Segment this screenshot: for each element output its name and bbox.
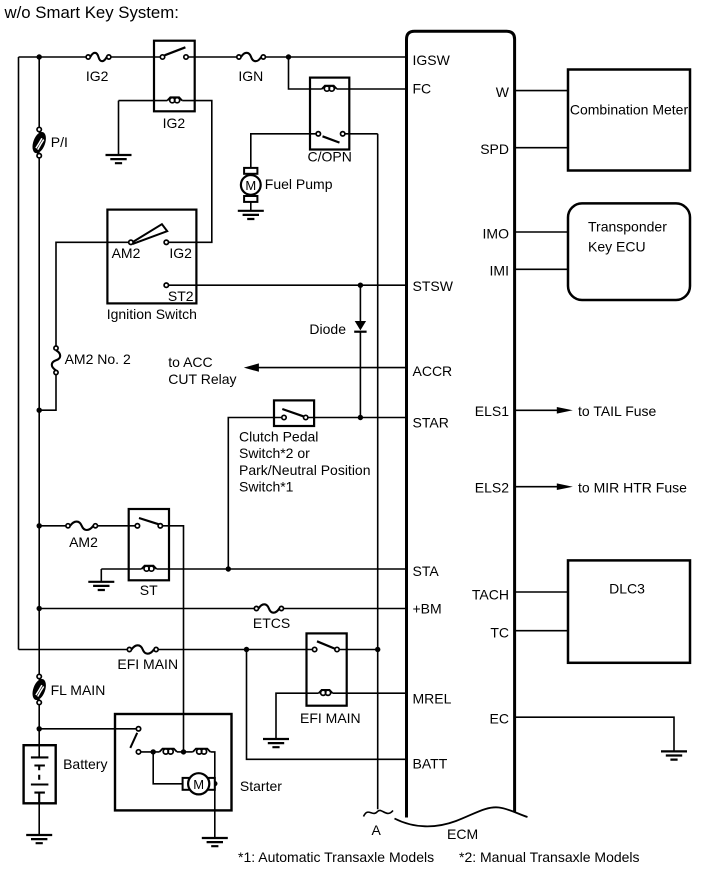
svg-text:Park/Neutral Position: Park/Neutral Position	[239, 462, 371, 478]
wire: EFI MAIN relay coil ground stem	[276, 693, 307, 739]
wire: IMI to transponder key ECU	[515, 268, 568, 270]
wire: TC to DLC3	[515, 630, 568, 632]
motor: starter	[183, 773, 215, 794]
svg-text:FC: FC	[413, 81, 432, 97]
wire: IG2 relay coil ground stem	[118, 101, 120, 155]
wire: fuel pump ground stem	[250, 202, 252, 211]
svg-text:W: W	[496, 84, 510, 100]
EFI MAIN relay switch lever	[317, 641, 335, 648]
junction: starter motor brush / ground line	[212, 781, 217, 786]
svg-text:+BM: +BM	[413, 601, 442, 617]
starter magnetic switch lever	[130, 733, 137, 748]
wire: ECM ACCR to ACC cut relay	[258, 367, 407, 369]
wire: battery feed to IG2 fuse	[19, 56, 87, 58]
svg-text:ECM: ECM	[447, 826, 478, 842]
wire: EFI MAIN relay coil left	[307, 692, 319, 694]
junction: main vertical / ETCS wire	[37, 606, 42, 611]
wire: between starter windings	[177, 751, 193, 753]
junction: battery positive tap	[37, 726, 42, 731]
junction: top wire / P-I branch	[37, 54, 42, 59]
svg-text:*1: Automatic Transaxle Models: *1: Automatic Transaxle Models	[238, 849, 434, 865]
svg-text:Ignition Switch: Ignition Switch	[107, 306, 197, 322]
ECM torn-edge wave	[395, 807, 528, 826]
wire: starter switch to pull-in coil	[141, 751, 160, 753]
combination meter box	[568, 70, 690, 171]
wire: W to combination meter	[515, 90, 568, 92]
svg-text:M: M	[193, 777, 204, 792]
ignition key lever	[133, 224, 167, 243]
svg-text:IGN: IGN	[238, 68, 263, 84]
wire: node A vertical (fuel pump feed)	[377, 134, 379, 810]
wire: ETCS fuse to ECM +BM	[284, 608, 407, 610]
svg-text:AM2 No. 2: AM2 No. 2	[65, 351, 131, 367]
wire: C/OPN switch to node A line	[345, 133, 378, 135]
starter box	[115, 714, 232, 810]
ground: starter motor	[202, 838, 228, 846]
ground: fuel pump	[238, 211, 264, 219]
svg-text:Fuel Pump: Fuel Pump	[265, 176, 333, 192]
junction: STSW / diode branch	[358, 283, 363, 288]
wire: ST2 to ECM STSW	[169, 284, 407, 286]
coil of ST relay	[142, 566, 157, 572]
motor: fuel pump	[241, 168, 261, 202]
svg-text:*2: Manual Transaxle Models: *2: Manual Transaxle Models	[459, 849, 640, 865]
node A break squiggle	[364, 810, 394, 816]
ground: ST relay coil	[88, 582, 114, 590]
wire: starter motor left brush feed	[153, 752, 182, 784]
svg-text:EC: EC	[490, 711, 509, 727]
svg-text:IG2: IG2	[169, 245, 192, 261]
wire: P/I feed vertical upper	[38, 57, 40, 127]
wire: SPD to combination meter	[515, 147, 568, 149]
junction: starter coil / motor brush	[151, 749, 156, 754]
svg-text:EFI MAIN: EFI MAIN	[117, 656, 178, 672]
wire: clutch switch to ST relay coil	[228, 418, 281, 567]
svg-text:to MIR HTR Fuse: to MIR HTR Fuse	[578, 480, 687, 496]
svg-text:Battery: Battery	[63, 756, 107, 772]
arrow to ACC CUT Relay	[244, 363, 259, 371]
svg-text:ST: ST	[140, 582, 158, 598]
junction: STA / clutch switch branch	[226, 566, 231, 571]
wire: ST relay coil ground stem	[100, 569, 102, 582]
wire: P/I to FL MAIN vertical	[38, 158, 40, 674]
wire: STSW junction to diode	[359, 285, 361, 321]
ground: battery	[26, 835, 52, 843]
wire: IG2 fuse to IG2 relay switch	[111, 56, 160, 58]
svg-text:IG2: IG2	[86, 68, 109, 84]
wire: C/OPN coil to ECM FC	[337, 88, 407, 90]
svg-text:IMO: IMO	[483, 226, 510, 242]
wire: IG2 relay coil left	[119, 100, 168, 102]
fuse IG2	[86, 53, 111, 61]
wire: IG2 relay switch to IGN fuse	[188, 56, 237, 58]
svg-text:STA: STA	[413, 563, 440, 579]
wire: ST relay coil to ECM STA	[157, 568, 407, 570]
wire: TACH to DLC3	[515, 591, 568, 593]
fuse EFI MAIN	[127, 645, 158, 653]
fusible link FL MAIN	[30, 674, 49, 704]
svg-text:Switch*1: Switch*1	[239, 479, 294, 495]
relay EFI MAIN box	[307, 633, 347, 705]
svg-text:Key ECU: Key ECU	[588, 239, 646, 255]
DLC3 box	[568, 560, 690, 662]
ST relay switch lever	[139, 518, 158, 524]
wire: ground to ST relay coil	[101, 568, 141, 570]
wire: ELS2 output	[515, 486, 558, 488]
svg-text:w/o Smart Key System:: w/o Smart Key System:	[4, 3, 179, 22]
fuse IGN	[237, 53, 266, 61]
junction: node A line / EFI MAIN relay	[375, 647, 380, 652]
ground: EFI MAIN relay coil	[263, 739, 289, 747]
C/OPN relay switch lever	[323, 136, 340, 142]
coil: starter pull-in winding	[159, 749, 177, 755]
svg-text:EFI MAIN: EFI MAIN	[300, 710, 361, 726]
wire: EFI MAIN relay coil to ECM MREL	[333, 692, 407, 694]
wire: diode to STAR wire	[359, 332, 361, 418]
svg-text:Transponder: Transponder	[588, 219, 667, 235]
wire: left vertical to EFI MAIN fuse	[19, 649, 128, 651]
svg-text:ELS1: ELS1	[475, 403, 509, 419]
wire: left outer vertical (battery to EFI MAIN fuse)	[18, 57, 20, 650]
svg-text:Starter: Starter	[240, 778, 282, 794]
wire: EFI MAIN fuse to EFI MAIN relay switch	[158, 649, 312, 651]
svg-text:Diode: Diode	[309, 321, 346, 337]
wire: AM2 fuse to ST relay switch	[98, 525, 136, 527]
IG2 relay switch lever	[165, 47, 186, 55]
wire: clutch switch to ECM STAR	[308, 417, 407, 419]
relay C/OPN box	[310, 78, 349, 150]
svg-text:TC: TC	[490, 625, 509, 641]
wire: main vertical to ETCS fuse	[39, 608, 254, 610]
svg-text:Clutch Pedal: Clutch Pedal	[239, 429, 318, 445]
svg-text:P/I: P/I	[51, 134, 68, 150]
svg-text:Switch*2 or: Switch*2 or	[239, 445, 310, 461]
junction: EFI MAIN wire / BATT branch	[244, 647, 249, 652]
svg-text:ELS2: ELS2	[475, 480, 509, 496]
wire: AM2 terminal to AM2 No.2 fuse	[56, 242, 129, 346]
svg-text:TACH: TACH	[472, 587, 509, 603]
wire: EFI MAIN relay switch to node A line	[339, 649, 378, 651]
clutch pedal / park-neutral switch box	[274, 400, 314, 426]
transponder key ECU box	[568, 203, 690, 300]
svg-text:STAR: STAR	[413, 415, 449, 431]
wire: battery negative to ground	[38, 803, 40, 835]
arrow to MIR HTR fuse	[557, 483, 573, 490]
arrow to TAIL fuse	[557, 407, 573, 414]
coil of IG2 relay	[167, 97, 182, 103]
svg-text:IGSW: IGSW	[413, 52, 451, 68]
diode D1	[354, 321, 366, 332]
fuse AM2 No. 2	[52, 346, 60, 375]
coil: starter hold-in winding	[193, 749, 211, 755]
fuse AM2	[66, 522, 98, 530]
ground: ECM EC	[661, 751, 687, 759]
svg-text:to TAIL Fuse: to TAIL Fuse	[578, 403, 657, 419]
fuse ETCS	[254, 604, 283, 612]
junction: ST relay feed / starter windings	[181, 749, 186, 754]
ECM connector box U1	[407, 31, 515, 817]
coil of C/OPN relay	[322, 86, 337, 92]
svg-text:Combination Meter: Combination Meter	[570, 102, 689, 118]
svg-text:FL MAIN: FL MAIN	[51, 682, 106, 698]
junction: STAR / diode branch	[358, 415, 363, 420]
wire: IGN fuse to ECM IGSW	[265, 56, 406, 58]
wire: IGSW junction to C/OPN coil	[289, 57, 322, 89]
svg-text:STSW: STSW	[413, 278, 454, 294]
junction: IGSW wire / FC branch	[286, 54, 291, 59]
ground: IG2 relay coil	[106, 155, 132, 163]
coil of EFI MAIN relay	[319, 690, 333, 696]
wire: battery positive to starter switch	[39, 728, 136, 730]
svg-text:AM2: AM2	[69, 534, 98, 550]
svg-text:MREL: MREL	[413, 691, 452, 707]
svg-text:AM2: AM2	[112, 245, 141, 261]
svg-text:ACCR: ACCR	[413, 363, 453, 379]
wire: starter winding to motor and ground	[210, 752, 214, 838]
svg-text:IMI: IMI	[490, 263, 509, 279]
svg-text:C/OPN: C/OPN	[308, 149, 352, 165]
svg-text:ETCS: ETCS	[253, 615, 290, 631]
wire: FL MAIN to battery	[38, 705, 40, 746]
svg-text:to ACC: to ACC	[168, 354, 212, 370]
svg-text:DLC3: DLC3	[609, 581, 645, 597]
svg-text:CUT Relay: CUT Relay	[168, 371, 236, 387]
wire: IMO to transponder key ECU	[515, 231, 568, 233]
wire: IG2 relay coil to ignition switch IG2	[169, 101, 212, 243]
wire: ST relay switch to starter coil node	[163, 526, 184, 752]
wire: main vertical to AM2 fuse	[39, 525, 66, 527]
fusible link P/I	[30, 127, 49, 158]
wire: C/OPN switch to fuel pump	[251, 134, 316, 168]
svg-text:BATT: BATT	[413, 756, 448, 772]
wire: AM2 No.2 fuse to main vertical	[39, 375, 56, 411]
wire: ELS1 output	[515, 409, 558, 411]
relay IG2 box	[154, 41, 195, 112]
svg-text:A: A	[372, 822, 382, 838]
junction: AM2 No.2 / main vertical	[37, 408, 42, 413]
svg-text:IG2: IG2	[163, 115, 186, 131]
wire: EC to ground	[515, 717, 674, 751]
svg-text:ST2: ST2	[168, 288, 194, 304]
wire: EFI MAIN junction to ECM BATT	[247, 650, 407, 760]
svg-text:SPD: SPD	[480, 141, 509, 157]
clutch switch lever	[282, 409, 303, 416]
ignition switch box	[107, 210, 196, 304]
svg-text:M: M	[245, 178, 256, 193]
junction: main vertical / AM2 fuse wire	[37, 523, 42, 528]
relay ST box	[129, 509, 169, 580]
battery B1	[24, 745, 56, 803]
